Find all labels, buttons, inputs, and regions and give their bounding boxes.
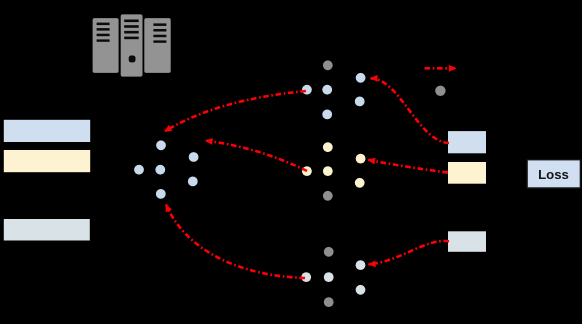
gradient arrow 2: yellow box to g2 right-top: [368, 160, 448, 173]
g2 bottom node gray: [323, 191, 333, 201]
output box gray (right): [448, 231, 486, 252]
node cluster right-bottom: [188, 177, 198, 187]
g3 right-bottom node: [356, 285, 366, 295]
g1 right-top node: [356, 73, 366, 83]
g1 top node gray: [323, 60, 333, 70]
gradient arrow B: group2 to cluster right: [206, 141, 308, 171]
g3 right-top node: [356, 260, 366, 270]
node cluster top: [156, 140, 166, 150]
gradient arrow C: group3 to cluster bottom: [166, 205, 305, 279]
output box yellow (right): [448, 162, 486, 184]
output box blue (right): [448, 131, 486, 153]
g2 top node: [323, 142, 333, 152]
node cluster middle: [155, 165, 165, 175]
g3 top node gray: [324, 247, 334, 257]
g2 right-top node: [356, 154, 366, 164]
g3 bottom node gray: [324, 297, 334, 307]
g2 right-bottom node: [355, 178, 365, 188]
legend gray node: [435, 86, 445, 96]
node cluster left: [134, 165, 144, 175]
server middle tower: [121, 14, 143, 76]
server left tower: [93, 18, 119, 73]
gradient arrow 1: blue box to g1 right-top: [371, 78, 450, 143]
server icon (parameter server): [93, 14, 171, 76]
g1 right-bottom node: [355, 97, 365, 107]
group 2 network (yellow client): [302, 142, 366, 200]
client-side small network cluster: [134, 140, 198, 198]
group 3 network (gray client): [301, 247, 365, 307]
svg-text:Loss: Loss: [538, 167, 569, 182]
g1 bottom node: [322, 110, 332, 120]
g1 left node: [302, 85, 312, 95]
node cluster right-top: [189, 152, 199, 162]
node cluster bottom: [156, 189, 166, 199]
gradient arrow A: group1 to cluster top: [165, 91, 307, 132]
Loss box: [527, 160, 581, 189]
input box yellow (left): [4, 150, 90, 172]
g2 middle node: [323, 166, 333, 176]
server right tower: [144, 18, 170, 73]
input box gray (left): [4, 219, 90, 241]
legend red dashed arrow: [425, 67, 457, 70]
group 1 network (blue client): [302, 60, 366, 119]
gradient arrow 3: gray box to g3 right-top: [369, 241, 450, 264]
g2 left node: [302, 166, 312, 176]
g3 left node: [301, 272, 311, 282]
input box blue (left): [4, 120, 90, 142]
g3 middle node: [324, 272, 334, 282]
g1 middle node: [322, 85, 332, 95]
